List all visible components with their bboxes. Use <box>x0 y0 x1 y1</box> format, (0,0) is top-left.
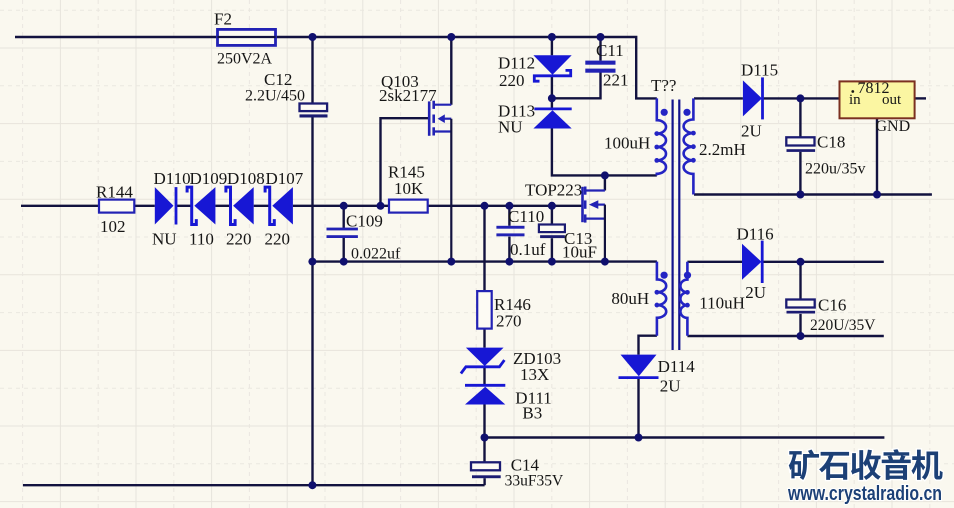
svg-text:NU: NU <box>152 230 177 249</box>
resistor R146 <box>477 291 492 329</box>
wire C109 bottom <box>343 238 345 262</box>
svg-text:10uF: 10uF <box>562 243 597 262</box>
svg-text:NU: NU <box>498 118 523 137</box>
wire C18 bottom <box>799 152 801 195</box>
svg-text:F2: F2 <box>214 10 232 29</box>
svg-text:D114: D114 <box>658 357 696 376</box>
svg-text:221: 221 <box>603 70 629 89</box>
diode D109 <box>194 187 215 224</box>
svg-text:D110: D110 <box>154 169 191 188</box>
svg-text:2.2U/450: 2.2U/450 <box>245 88 305 105</box>
wire C16 top <box>799 262 801 300</box>
svg-text:D112: D112 <box>498 54 535 73</box>
wire mains rail seg6 <box>293 205 389 207</box>
wire C18 top <box>799 98 801 137</box>
svg-text:GND: GND <box>876 118 911 135</box>
svg-text:C18: C18 <box>817 133 845 152</box>
svg-text:250V2A: 250V2A <box>217 51 273 68</box>
svg-text:110uH: 110uH <box>699 294 745 313</box>
wire C14 bottom <box>483 478 485 485</box>
label 7812 <box>851 90 854 93</box>
svg-text:C109: C109 <box>346 211 383 230</box>
wire C13 top <box>551 206 553 225</box>
svg-text:C110: C110 <box>508 207 544 226</box>
svg-text:110: 110 <box>189 230 214 249</box>
wire C13 bottom <box>551 238 553 261</box>
transformer T?? core <box>671 100 673 351</box>
svg-text:220U/35V: 220U/35V <box>810 317 876 334</box>
svg-text:B3: B3 <box>522 404 542 423</box>
inductor secondary 110uH <box>680 262 687 336</box>
node primary phase dot <box>661 109 668 116</box>
wire C12 to bottom rail <box>311 118 313 486</box>
svg-text:C12: C12 <box>264 70 292 89</box>
wire control rail <box>428 205 583 207</box>
svg-text:R144: R144 <box>96 183 133 202</box>
ic TOP223 U1 <box>581 187 584 222</box>
regulator U2 7812 <box>840 81 915 118</box>
wire low-voltage return rail <box>485 436 885 438</box>
diode D115 <box>743 80 762 116</box>
wire Q103 drain <box>450 37 452 105</box>
svg-text:2U: 2U <box>745 283 766 302</box>
wire bottom rail <box>23 484 485 486</box>
wire C16 bottom <box>799 314 801 336</box>
wire C11 bottom link <box>552 73 601 99</box>
svg-text:220: 220 <box>499 71 525 90</box>
svg-text:www.crystalradio.cn: www.crystalradio.cn <box>787 483 942 505</box>
wire C14 top <box>483 438 485 463</box>
wire mains rail seg4 <box>215 205 230 207</box>
wire node to D113 <box>551 98 553 109</box>
wire source rail <box>312 260 657 262</box>
wire mains rail seg5 <box>254 205 270 207</box>
diode D113 <box>534 108 571 111</box>
svg-text:100uH: 100uH <box>604 134 650 153</box>
wire AC top rail <box>15 37 657 98</box>
node 2.2mH phase dot <box>683 109 690 116</box>
wire ZD103 to D111 <box>483 367 485 386</box>
wire C16 return rail <box>687 335 883 337</box>
transistor Q103 <box>428 101 431 135</box>
wire D112 anode <box>551 37 553 55</box>
svg-text:D109: D109 <box>190 169 228 188</box>
wire 110uH to D116 <box>687 261 742 263</box>
svg-text:2U: 2U <box>741 122 762 141</box>
node 80uH phase dot <box>661 272 668 279</box>
svg-text:2U: 2U <box>660 377 681 396</box>
wire mains rail seg1 <box>21 205 99 207</box>
capacitor C18 <box>786 137 814 145</box>
capacitor C12 <box>300 104 328 112</box>
resistor R145 <box>389 200 428 213</box>
inductor bias 80uH <box>657 262 666 336</box>
wire C110 top <box>508 206 510 226</box>
wire D113 to primary bottom <box>552 129 657 176</box>
svg-text:D108: D108 <box>227 169 265 188</box>
diode D107 <box>272 187 293 224</box>
svg-text:220u/35v: 220u/35v <box>805 161 865 178</box>
svg-text:2.2mH: 2.2mH <box>699 140 746 159</box>
diode D116 <box>742 244 762 280</box>
resistor R144 <box>99 200 134 213</box>
svg-text:T??: T?? <box>651 76 676 95</box>
svg-text:D107: D107 <box>266 169 304 188</box>
svg-text:13X: 13X <box>520 365 549 384</box>
svg-text:D115: D115 <box>741 60 778 79</box>
node junction dots <box>309 33 317 41</box>
svg-text:80uH: 80uH <box>611 289 649 308</box>
wire R146 to ZD103 <box>483 329 485 348</box>
fuse F2 <box>218 29 276 45</box>
svg-text:in: in <box>849 92 861 108</box>
wire TOP223 drain link <box>604 175 606 190</box>
node 110uH phase dot <box>684 272 691 279</box>
wire 2.2mH to D115 <box>694 97 743 99</box>
svg-text:220: 220 <box>265 230 291 249</box>
wire R146 top <box>483 206 485 291</box>
wire C109 top <box>343 206 345 228</box>
watermark logo crystalradio <box>789 449 943 480</box>
capacitor C109 <box>327 228 358 231</box>
wire U2 out stub <box>915 97 926 99</box>
svg-text:2sk2177: 2sk2177 <box>379 86 437 105</box>
diode D111 <box>465 384 505 387</box>
capacitor C16 <box>786 300 814 308</box>
inductor secondary 2.2mH <box>684 98 694 194</box>
capacitor C11 <box>585 61 615 65</box>
wire +12V return rail <box>694 193 932 195</box>
svg-text:220: 220 <box>226 230 252 249</box>
svg-text:D116: D116 <box>737 225 774 244</box>
wire U2 GND drop <box>876 118 878 194</box>
wire mains rail seg3 <box>177 205 192 207</box>
wire 80uH bottom to D114 <box>639 336 657 355</box>
svg-text:33uF35V: 33uF35V <box>505 473 564 490</box>
svg-text:270: 270 <box>496 311 522 330</box>
diode D108 <box>233 187 254 224</box>
wire D114 cathode <box>637 379 639 438</box>
capacitor C14 <box>471 462 500 470</box>
diode D114 <box>621 355 657 377</box>
capacitor C13 <box>539 225 565 233</box>
inductor primary 100uH <box>657 98 666 175</box>
svg-text:102: 102 <box>100 217 126 236</box>
wire D116 to C16 node <box>762 261 884 263</box>
wire Q103 gate link <box>381 118 430 206</box>
wire D111 to rail <box>483 405 485 438</box>
wire D112 cathode to node <box>551 76 553 99</box>
svg-text:C11: C11 <box>596 41 624 60</box>
wire mains rail seg2 <box>134 205 155 207</box>
svg-text:out: out <box>882 92 902 108</box>
svg-text:TOP223: TOP223 <box>525 181 582 200</box>
diode D110 <box>155 187 174 224</box>
wire C11 top <box>599 37 601 61</box>
svg-text:0.1uf: 0.1uf <box>510 240 546 259</box>
wire D115 to U2 in <box>763 97 840 99</box>
wire C110 bottom <box>508 237 510 262</box>
svg-text:0.022uf: 0.022uf <box>351 246 401 263</box>
capacitor C110 <box>496 226 524 229</box>
zener ZD103 <box>466 348 504 366</box>
diode D112 <box>533 55 571 74</box>
wire C12 branch top <box>311 37 313 104</box>
svg-text:10K: 10K <box>394 179 424 198</box>
svg-text:C16: C16 <box>818 295 846 314</box>
